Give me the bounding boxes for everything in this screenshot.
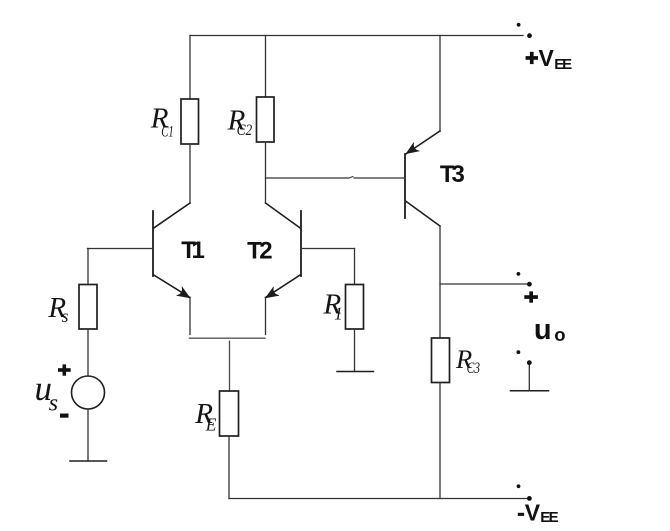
svg-text:EE: EE — [554, 56, 572, 73]
svg-text:C2: C2 — [237, 122, 253, 139]
svg-text:T1: T1 — [181, 237, 205, 264]
svg-text:T2: T2 — [247, 237, 273, 264]
svg-text:s: s — [49, 390, 58, 416]
svg-text:V: V — [539, 45, 555, 71]
svg-text:o: o — [554, 324, 565, 345]
svg-text:V: V — [525, 500, 541, 526]
svg-text:E: E — [205, 415, 217, 435]
svg-text:s: s — [62, 306, 69, 326]
svg-text:T3: T3 — [440, 161, 465, 188]
svg-text:u: u — [534, 314, 552, 346]
svg-text:1: 1 — [334, 304, 343, 324]
svg-text:EE: EE — [540, 509, 558, 526]
svg-text:C1: C1 — [161, 124, 174, 141]
svg-text:C3: C3 — [467, 360, 481, 377]
